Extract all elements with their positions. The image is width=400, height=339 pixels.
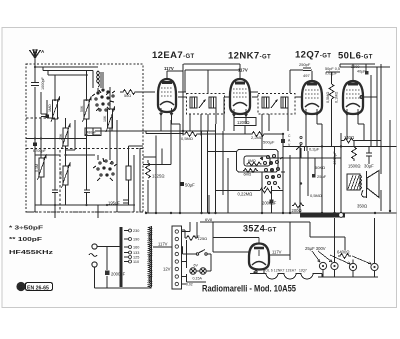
right area wires bbox=[266, 64, 397, 213]
left bottom labels bbox=[9, 226, 54, 257]
resistor 125 zigzag bbox=[185, 236, 197, 241]
capacitor 195pF bbox=[123, 200, 129, 203]
mains squiggle bbox=[89, 254, 97, 257]
6V label bbox=[194, 264, 199, 268]
wire IF2 to t3 bbox=[288, 97, 302, 114]
wire 0,5M top bbox=[326, 71, 340, 73]
electrolytic C1 bbox=[319, 262, 326, 269]
capacitor 2000pF black bbox=[270, 200, 274, 204]
wire verticals inside box bbox=[41, 71, 129, 206]
svg-text:0,1M: 0,1M bbox=[59, 171, 63, 179]
capacitor 480pF bbox=[85, 128, 101, 136]
svg-text:LE: LE bbox=[195, 234, 200, 239]
resistor 50ohm zigzag bbox=[120, 90, 138, 95]
svg-text:0,5MΩ: 0,5MΩ bbox=[326, 92, 330, 103]
resistor R 1M vertical box bbox=[53, 100, 58, 119]
resistor box 3 bbox=[63, 128, 68, 146]
wire y138.5 bbox=[26, 138, 87, 140]
350 ohm label bbox=[357, 204, 367, 209]
svg-text:1MΩ: 1MΩ bbox=[48, 104, 52, 112]
svg-text:25µF: 25µF bbox=[317, 174, 327, 179]
tube 12NK7 bbox=[230, 79, 250, 117]
svg-text:0,5MΩ: 0,5MΩ bbox=[181, 136, 193, 141]
0,1M rotated label bbox=[335, 92, 339, 103]
resistor 1325 vertical zigzag bbox=[146, 163, 151, 178]
antenna A bbox=[30, 49, 41, 63]
bus y131 bbox=[100, 130, 216, 132]
resistor 0,22M bbox=[216, 188, 284, 193]
capacitor plates small 2 bbox=[52, 190, 58, 193]
0,5M rotated label bbox=[326, 92, 330, 103]
35Z4 wires bbox=[200, 222, 310, 260]
tube 12Q7 bbox=[302, 81, 322, 116]
junction white circle bbox=[339, 213, 344, 218]
wires under box left bbox=[117, 92, 228, 213]
electrolytic wires bbox=[310, 218, 378, 277]
volume resistor 1 bbox=[247, 162, 262, 166]
tube3 top wire bbox=[290, 70, 312, 93]
wire t2 to IF2 bbox=[250, 92, 258, 97]
wire top inner bbox=[35, 67, 98, 75]
0,5M label bbox=[181, 136, 193, 141]
mains terminals bbox=[92, 244, 97, 249]
svg-text:117V: 117V bbox=[164, 66, 174, 71]
oscillator coil bbox=[97, 71, 100, 87]
wire bottom bus inside box bbox=[35, 204, 135, 206]
socket bump row bbox=[250, 274, 322, 280]
0,15A label bbox=[193, 277, 203, 281]
svg-text:350Ω: 350Ω bbox=[357, 204, 367, 209]
socket strip holes bbox=[175, 230, 178, 286]
socket labels bbox=[263, 269, 307, 273]
band switch circle cluster bottom bbox=[93, 158, 117, 181]
wire t1 plate to IF1 bbox=[178, 92, 187, 97]
svg-text:50K: 50K bbox=[80, 105, 84, 112]
svg-text:** 100pF: ** 100pF bbox=[9, 237, 42, 243]
svg-text:497: 497 bbox=[303, 73, 310, 78]
outer dashed box front-end bbox=[26, 64, 143, 212]
svg-text:0,15A: 0,15A bbox=[193, 277, 203, 281]
svg-text:VOL 6 12NK7 12EA7: VOL 6 12NK7 12EA7 bbox=[263, 269, 296, 273]
svg-text:500µF: 500µF bbox=[263, 140, 275, 145]
mid lower verticals bbox=[202, 124, 291, 213]
svg-text:50Ω: 50Ω bbox=[124, 94, 131, 98]
svg-text:4000µF: 4000µF bbox=[332, 151, 337, 165]
svg-text:6V: 6V bbox=[194, 264, 199, 268]
capacitor 30uF bbox=[366, 147, 372, 164]
dashed bus left bbox=[26, 211, 146, 213]
svg-text:0,1M: 0,1M bbox=[35, 164, 39, 172]
svg-text:117V: 117V bbox=[272, 250, 282, 255]
electrolytic C3 bbox=[349, 263, 356, 270]
band switch circle cluster top bbox=[92, 89, 115, 111]
1000pF label rotated bbox=[41, 76, 45, 90]
resistor box 7 bbox=[126, 166, 131, 180]
pilot lamp A bbox=[190, 268, 196, 274]
mid vertical wires bbox=[161, 64, 290, 150]
speaker bbox=[367, 171, 380, 199]
35Z4 label bbox=[243, 224, 277, 234]
capacitor 250pF bbox=[303, 68, 311, 71]
labels 50 825 bbox=[315, 165, 327, 179]
capacitor 2000pF mains bbox=[105, 271, 110, 276]
capacitor 50uF bbox=[180, 182, 184, 186]
50L6 side contact bbox=[360, 96, 363, 99]
svg-text:0,02µF: 0,02µF bbox=[325, 72, 338, 76]
svg-text:0,02: 0,02 bbox=[186, 283, 193, 287]
extra wires left box bbox=[35, 67, 143, 212]
12V label bbox=[163, 267, 171, 272]
coil core lines bbox=[101, 72, 103, 88]
wire L piece bbox=[143, 136, 237, 158]
capacitor black square 50L6 bbox=[365, 71, 369, 75]
svg-text:50KΩ: 50KΩ bbox=[315, 165, 325, 170]
power transformer core bar bbox=[120, 227, 123, 287]
tap labels bbox=[133, 229, 139, 264]
1325 label bbox=[152, 174, 164, 179]
resistor box 2 bbox=[84, 100, 89, 119]
svg-text:12Q7: 12Q7 bbox=[299, 269, 307, 273]
IF T1 winding 2 bbox=[209, 97, 216, 108]
svg-text:190: 190 bbox=[133, 238, 139, 242]
140 ohm label bbox=[344, 135, 354, 140]
svg-text:6700pF: 6700pF bbox=[33, 149, 47, 153]
resistor 6400 zigzag bbox=[338, 254, 351, 259]
wire to tube grid bbox=[138, 91, 155, 93]
CAV switch contacts bbox=[300, 136, 302, 138]
IF T2 winding 1 bbox=[262, 97, 269, 108]
volume control rounded box bbox=[237, 150, 279, 173]
speaker hook bbox=[362, 190, 367, 197]
capacitor black small bbox=[46, 115, 50, 119]
svg-text:25µF 300V: 25µF 300V bbox=[305, 246, 326, 251]
50L6 top labels bbox=[325, 65, 366, 76]
socket pins bbox=[255, 271, 257, 273]
svg-text:2000pF: 2000pF bbox=[111, 272, 126, 277]
resistor box 4 bbox=[108, 109, 113, 128]
svg-text:30µF: 30µF bbox=[364, 164, 374, 169]
svg-text:25K: 25K bbox=[59, 133, 63, 140]
capacitor 0,2uF bbox=[305, 147, 308, 151]
power transformer winding bbox=[148, 227, 151, 288]
strip wires bbox=[153, 222, 190, 284]
resistor 1200 box bbox=[234, 118, 256, 126]
resistor 1500 vertical zigzag bbox=[352, 141, 357, 162]
svg-text:12V: 12V bbox=[163, 267, 171, 272]
4000uF vertical label bbox=[332, 151, 337, 165]
CAV vertical label bbox=[288, 134, 291, 147]
2,5M label bbox=[310, 193, 322, 198]
bus y133.5 bbox=[146, 133, 183, 135]
svg-text:EN 26-65: EN 26-65 bbox=[27, 286, 49, 292]
output transformer winding bbox=[360, 175, 362, 189]
Radiomarelli title bbox=[202, 284, 296, 294]
capacitor 1000pF bbox=[31, 83, 39, 86]
svg-text:195µF: 195µF bbox=[108, 201, 120, 206]
IF T1 winding 1 bbox=[190, 97, 197, 108]
IF T1 core arrows bbox=[199, 100, 205, 108]
dashed partition vertical bbox=[59, 150, 61, 212]
thick black bar field coil bbox=[300, 213, 345, 218]
dashed partition horizontal bbox=[26, 117, 60, 119]
svg-text:110: 110 bbox=[133, 260, 139, 264]
electrolytic C2 bbox=[331, 262, 338, 269]
svg-text:2,2MΩ: 2,2MΩ bbox=[251, 135, 263, 140]
svg-text:6MΩ: 6MΩ bbox=[244, 173, 252, 177]
switch bbox=[196, 253, 198, 255]
mains wires bbox=[95, 247, 152, 289]
capacitor 6700pF black bbox=[33, 142, 37, 146]
50L6 label bbox=[338, 51, 373, 62]
IF T2 winding 2 bbox=[281, 97, 288, 108]
12EA7 label bbox=[152, 50, 195, 61]
capacitor plates small 1 bbox=[41, 114, 47, 117]
tube1 top wire bbox=[167, 71, 183, 79]
svg-text:1000pF: 1000pF bbox=[41, 76, 45, 90]
svg-text:2000µF: 2000µF bbox=[262, 201, 277, 206]
resistor 0,5M vertical bbox=[329, 72, 334, 147]
svg-text:* 3÷50pF: * 3÷50pF bbox=[9, 226, 43, 232]
12Q7 label bbox=[295, 50, 331, 61]
small rotated labels inside box bbox=[33, 94, 131, 179]
volume resistor 2 bbox=[243, 169, 258, 173]
117V label t1 bbox=[164, 66, 174, 71]
antenna lead wire bbox=[34, 63, 36, 212]
IF T2 dashed box bbox=[258, 94, 295, 115]
200 ohm label bbox=[292, 208, 302, 213]
svg-text:117V: 117V bbox=[158, 242, 168, 247]
svg-text:230: 230 bbox=[133, 229, 139, 233]
svg-text:125: 125 bbox=[133, 256, 139, 260]
svg-text:6MΩ: 6MΩ bbox=[248, 159, 256, 163]
tube2 top wire bbox=[184, 64, 241, 92]
electrolytic C4 bbox=[371, 263, 378, 270]
117V label 35Z4 bbox=[272, 250, 282, 255]
LE label bbox=[195, 234, 200, 239]
250pF label bbox=[299, 62, 311, 78]
12Q7 pin wires bbox=[306, 116, 322, 158]
svg-text:50µF: 50µF bbox=[185, 183, 195, 188]
117V label t2 bbox=[238, 68, 248, 73]
junction dots left box bbox=[34, 66, 108, 206]
arrows to electrolytics bbox=[312, 251, 371, 264]
0,02 label bbox=[186, 283, 193, 287]
electrolytic labels bbox=[305, 246, 349, 255]
svg-text:133: 133 bbox=[133, 251, 139, 255]
trimmer arrows left bbox=[51, 97, 60, 122]
svg-text:6V8: 6V8 bbox=[205, 217, 213, 222]
117V label strip bbox=[158, 242, 168, 247]
svg-text:G: G bbox=[18, 285, 22, 291]
svg-text:40µF: 40µF bbox=[357, 70, 366, 74]
svg-text:50pF 0,5: 50pF 0,5 bbox=[325, 67, 340, 71]
wire IF1 to t2 bbox=[208, 70, 230, 114]
heater wire vertical bbox=[182, 222, 212, 282]
transformer taps bbox=[129, 229, 132, 263]
main bottom bus bbox=[146, 212, 397, 214]
tap wires bbox=[124, 231, 129, 262]
50L6 pin wires bbox=[347, 116, 364, 141]
resistor box 5 bbox=[39, 158, 44, 177]
resistor 140 zigzag bbox=[341, 138, 381, 146]
resistor box 6 bbox=[63, 166, 68, 185]
svg-text:1200Ω: 1200Ω bbox=[237, 120, 249, 125]
svg-text:10K: 10K bbox=[103, 115, 107, 122]
svg-text:160: 160 bbox=[133, 246, 139, 250]
svg-text:0,2µF: 0,2µF bbox=[309, 147, 320, 152]
logo badge bbox=[16, 282, 52, 292]
svg-text:0,5MΩ: 0,5MΩ bbox=[310, 193, 322, 198]
svg-text:480pF: 480pF bbox=[87, 131, 97, 135]
svg-text:0,22MΩ: 0,22MΩ bbox=[238, 192, 253, 197]
IF transformer T1 dashed box bbox=[187, 94, 225, 115]
tube4 top wire bbox=[340, 64, 375, 81]
junction dots bbox=[145, 130, 391, 214]
socket strip rect bbox=[172, 226, 182, 289]
output transformer hatched bbox=[347, 174, 360, 190]
6V8 label bbox=[205, 217, 213, 222]
IF T2 core arrows bbox=[271, 100, 277, 108]
svg-text:HF455KHz: HF455KHz bbox=[9, 250, 54, 256]
2,2M label bbox=[251, 135, 263, 140]
svg-text:Radiomarelli - Mod. 10A55: Radiomarelli - Mod. 10A55 bbox=[202, 284, 296, 294]
svg-text:0,1MΩ: 0,1MΩ bbox=[335, 92, 339, 103]
tube 35Z4 bbox=[249, 238, 269, 270]
dashed partition horizontal 2 bbox=[26, 148, 143, 150]
capacitor plates small 3 bbox=[84, 190, 90, 193]
12NK7 label bbox=[228, 51, 271, 62]
tube 12EA7 bbox=[158, 79, 176, 116]
svg-text:250pF: 250pF bbox=[299, 62, 311, 67]
svg-text:1500Ω: 1500Ω bbox=[348, 164, 360, 169]
chassis stubs bbox=[55, 205, 98, 218]
pilot lamp B bbox=[200, 268, 206, 274]
resistor 0,5M zigzag on bus bbox=[183, 132, 282, 137]
tube 50L6 bbox=[343, 81, 363, 116]
resistor 200 zigzag bbox=[292, 203, 304, 208]
capacitor 500pF black bbox=[281, 139, 285, 143]
svg-text:1325Ω: 1325Ω bbox=[152, 174, 164, 179]
rotary switch cluster bbox=[260, 155, 285, 190]
